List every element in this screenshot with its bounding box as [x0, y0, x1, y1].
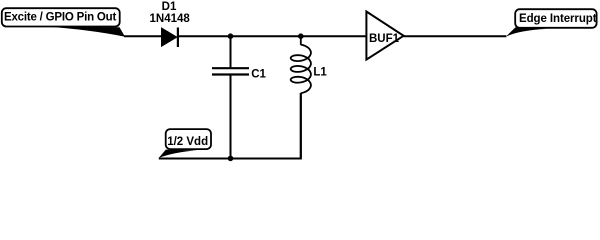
net flag box: Edge Interrupt	[515, 9, 597, 28]
svg-text:L1: L1	[313, 67, 327, 79]
node junction: capacitor C1 top	[228, 33, 234, 39]
diode D1	[162, 28, 178, 48]
net flag tail: Edge Interrupt	[506, 27, 547, 37]
node junction: inductor L1 top	[298, 33, 304, 39]
wire: GPIO flag to diode anode	[124, 35, 163, 37]
net flag tail: Excite / GPIO Pin Out	[45, 27, 125, 37]
node junction: capacitor C1 bottom	[228, 156, 234, 162]
wire: diode cathode to buffer input	[178, 35, 366, 37]
net flag box: 1/2 Vdd	[166, 129, 211, 149]
svg-text:BUF1: BUF1	[369, 33, 400, 45]
svg-text:Edge Interrupt: Edge Interrupt	[519, 13, 597, 25]
wire: buffer output to Edge Interrupt flag	[404, 35, 507, 37]
net flag tail: 1/2 Vdd	[159, 150, 197, 158]
inductor L1	[291, 36, 311, 158]
svg-text:Excite / GPIO Pin Out: Excite / GPIO Pin Out	[4, 12, 116, 24]
svg-text:C1: C1	[251, 69, 266, 81]
bottom wire: 1/2 Vdd to capacitor and inductor	[159, 93, 301, 159]
capacitor C1	[212, 36, 249, 158]
svg-text:1/2 Vdd: 1/2 Vdd	[167, 136, 208, 148]
buffer BUF1	[366, 12, 403, 60]
net flag box: Excite / GPIO Pin Out	[2, 8, 120, 26]
svg-text:1N4148: 1N4148	[150, 13, 191, 25]
svg-text:D1: D1	[162, 1, 177, 13]
